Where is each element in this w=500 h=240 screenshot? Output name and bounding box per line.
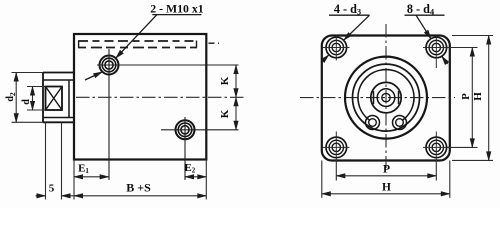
wrench flat right	[398, 91, 400, 104]
svg-text:E1: E1	[78, 163, 89, 176]
5 dimension outside arrow left	[36, 195, 46, 197]
svg-text:H: H	[472, 92, 484, 101]
bore circle second	[353, 64, 420, 131]
leader 8-d4 upper	[416, 15, 431, 39]
nut box with cross	[46, 87, 63, 111]
d dimension line	[32, 87, 34, 111]
H horizontal extension left	[321, 161, 323, 198]
port P2 circles	[176, 120, 195, 139]
collar step lines	[43, 80, 74, 118]
port P1 horizontal crosshair merging into K extension	[97, 64, 239, 66]
B+S dimension line	[74, 195, 206, 197]
P horizontal extension right	[435, 160, 437, 181]
hidden line right hook	[196, 41, 198, 48]
svg-text:4 - d3: 4 - d3	[334, 2, 361, 17]
ring hook around right lug	[393, 116, 407, 130]
leader 8-d4 lower	[442, 56, 448, 64]
E1 dimension line	[74, 176, 109, 178]
H vertical dimension line	[488, 36, 490, 161]
leader 4-d3 lower	[321, 55, 329, 63]
hidden line left hook	[78, 41, 80, 48]
port P2 horizontal crosshair merging into K extension	[161, 129, 239, 131]
right lug hole	[396, 119, 404, 127]
leader to port P1 upper	[116, 15, 157, 59]
port P2 vertical centerline merging into E2 extension	[184, 117, 186, 180]
svg-text:P: P	[383, 163, 390, 175]
label 4-d3 underline	[329, 14, 370, 16]
flange outline	[322, 36, 450, 161]
E2 dimension line	[185, 176, 206, 178]
svg-text:K: K	[219, 76, 231, 85]
wrench flat left	[373, 91, 375, 104]
d extension top	[27, 86, 46, 88]
P horizontal dimension line	[336, 175, 436, 177]
P vertical dimension line	[471, 48, 473, 148]
vertical centerline	[385, 24, 387, 168]
svg-text:B +S: B +S	[126, 180, 151, 194]
dash overshoot right of body	[209, 42, 220, 44]
5 dimension outside arrow right	[62, 195, 75, 197]
svg-text:K: K	[219, 109, 231, 118]
svg-text:E2: E2	[184, 162, 195, 175]
horizontal centerline of left view	[76, 96, 244, 98]
svg-text:d: d	[21, 99, 32, 105]
left lug hole	[369, 119, 377, 127]
H horizontal dimension line	[322, 193, 450, 195]
hub circle	[371, 82, 401, 112]
extension line nut right down	[61, 122, 63, 199]
port P1 circles	[100, 56, 119, 75]
svg-text:P: P	[460, 93, 472, 100]
extension line body left edge down	[73, 160, 75, 200]
P vertical extension top	[447, 47, 478, 49]
svg-text:H: H	[382, 182, 391, 194]
label 8-d4 underline	[405, 14, 445, 16]
H horizontal extension right	[449, 161, 451, 198]
svg-text:d2: d2	[5, 92, 17, 102]
d2 extension bottom	[12, 121, 44, 123]
bore circle outer	[345, 57, 427, 139]
K dimension line upper	[235, 65, 237, 97]
d2 dimension line	[15, 73, 17, 123]
rod collar outer lines	[43, 73, 74, 123]
H vertical extension bottom	[452, 159, 493, 161]
corner hole bottom-left	[323, 132, 350, 161]
horizontal centerline	[300, 97, 455, 99]
svg-text:5: 5	[49, 182, 55, 194]
corner hole bottom-right	[423, 132, 450, 161]
corner hole top-right	[423, 35, 450, 69]
rod circle	[377, 89, 395, 107]
center hole	[382, 93, 390, 101]
extension line body right edge down	[205, 160, 207, 200]
svg-text:2 - M10 x1: 2 - M10 x1	[150, 1, 204, 15]
ring hook around left lug	[366, 116, 380, 130]
corner hole top-left	[323, 35, 350, 61]
leader 4-d3 upper	[344, 15, 370, 40]
svg-text:8 - d4: 8 - d4	[407, 2, 435, 17]
P horizontal extension left	[335, 160, 337, 181]
P vertical extension bottom	[447, 146, 478, 148]
K dimension line lower	[235, 97, 237, 130]
hidden thread dashed line row 1	[78, 40, 197, 42]
leader to port P1 lower	[85, 72, 102, 80]
H vertical extension top	[452, 35, 493, 37]
d extension bottom	[27, 109, 46, 111]
port P1 vertical centerline merging into E1 extension	[108, 49, 110, 180]
retaining ring inner arc with bottom gap	[358, 70, 414, 121]
extension line nut left down	[45, 122, 47, 199]
d2 extension top	[12, 72, 44, 74]
cylinder body outline	[74, 34, 206, 160]
hidden thread dashed line row 2	[78, 47, 197, 49]
label underline	[152, 14, 201, 16]
